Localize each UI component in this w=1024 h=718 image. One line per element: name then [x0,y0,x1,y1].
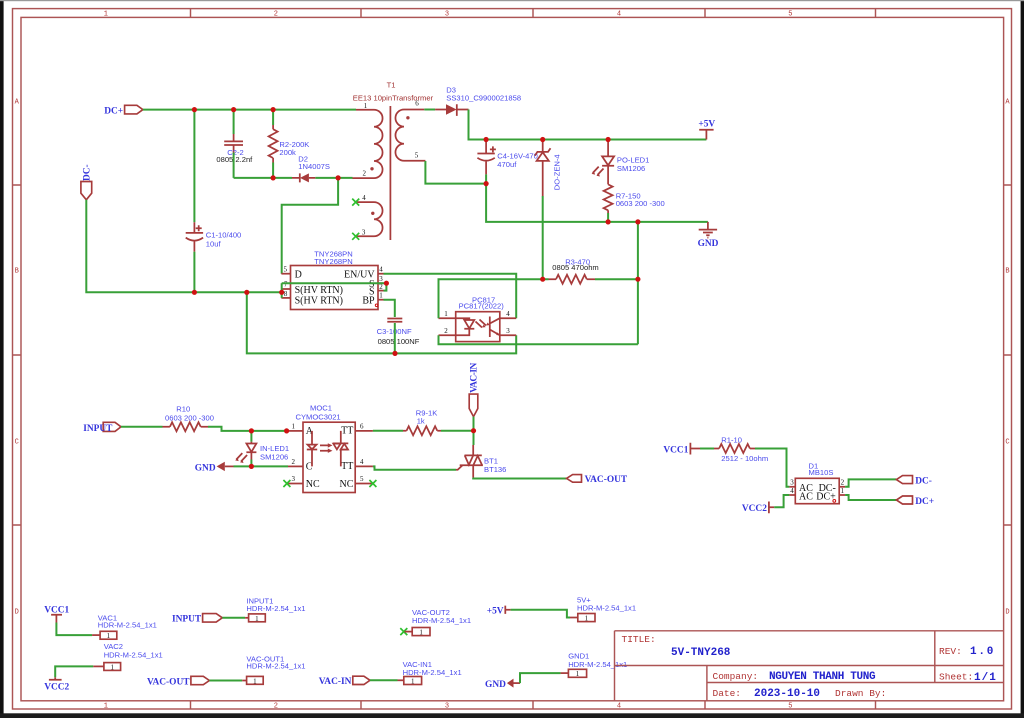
svg-text:AC: AC [799,491,813,502]
svg-text:0603 200 -300: 0603 200 -300 [616,199,665,208]
svg-text:HDR-M-2.54_1x1: HDR-M-2.54_1x1 [104,651,163,660]
svg-text:HDR-M-2.54_1x1: HDR-M-2.54_1x1 [568,660,627,669]
svg-text:D: D [15,609,19,617]
junction rail/C4 [484,137,489,142]
wire VAC-IN to VAC-IN1 [370,679,398,681]
wire BT1 to VAC-OUT [473,477,566,480]
optotriac MOC1 [283,404,376,493]
svg-text:3: 3 [445,11,449,19]
svg-text:4: 4 [617,703,621,711]
resistor R9 [403,409,441,436]
svg-text:DO-ZEN-4: DO-ZEN-4 [553,154,562,190]
MOC1 internal arrows [320,445,329,450]
svg-text:B: B [1005,268,1009,276]
svg-text:5: 5 [415,151,419,159]
wire INPUT to R10 [121,426,163,428]
TNY268 pin 8 [281,297,290,299]
svg-text:VCC1: VCC1 [44,605,69,615]
wire R10 to MOC1 [208,427,288,431]
svg-text:10uf: 10uf [206,240,222,249]
MOC1 pin 4 [355,465,373,467]
port DC+ [104,105,143,116]
capacitor C1 [186,222,242,251]
wire GND to GND1 [520,673,561,683]
svg-text:SM1206: SM1206 [260,453,288,462]
wire BP to C3 [384,300,395,317]
svg-text:R1-10: R1-10 [721,436,742,445]
svg-text:T1: T1 [387,81,396,90]
svg-text:SM1206: SM1206 [617,164,645,173]
wire VCC1 to R1 [700,448,714,450]
wire VCC2 to VAC2 [55,666,93,677]
PC817 pin 2 [439,334,456,336]
wire LED to GND line [250,460,252,467]
svg-text:B: B [15,268,19,276]
svg-text:NC: NC [306,479,320,490]
svg-text:R10: R10 [176,405,190,414]
resistor R3 [549,258,599,284]
junction GND/R7 [606,219,611,224]
wire VCC1 to VAC1 [56,623,92,636]
svg-text:Sheet:: Sheet: [939,672,973,683]
svg-text:1: 1 [444,310,448,318]
svg-text:0603 200 -300: 0603 200 -300 [165,414,214,423]
junction C3/rail [392,351,397,356]
junction DC-/TNY pins [279,290,284,295]
svg-text:2023-10-10: 2023-10-10 [754,688,820,700]
svg-text:2: 2 [291,458,295,466]
TNY268 pin 5 [281,273,290,275]
resistor R2 [269,125,310,163]
wire bottom source rail [247,292,516,353]
svg-text:1: 1 [107,632,111,640]
PC817 pin 3 [500,334,516,336]
port INPUT [83,422,121,434]
svg-text:4: 4 [362,194,366,202]
wire opto pin1 to zener/R3 [439,279,549,318]
junction C4 bottom [484,181,489,186]
PC817 internal arrows [476,320,487,328]
power +5V [698,119,715,139]
junction rail/LED [606,137,611,142]
title block [615,631,1004,701]
junction R3 left / zener [540,277,545,282]
TNY268 pin 7 [281,288,290,290]
svg-text:3: 3 [445,703,449,711]
svg-text:0805 470ohm: 0805 470ohm [552,263,598,272]
wire D3 to +5V rail [469,110,707,140]
bridge rectifier D1 [789,461,845,503]
svg-text:NC: NC [339,479,353,490]
wire T1.5 to C4 bottom [425,161,486,184]
TNY268 pin 4 [378,273,384,275]
wire R2 bottom [272,163,274,178]
svg-text:1: 1 [253,677,257,685]
svg-text:1: 1 [411,677,415,685]
no-connect T1 pin 3 [352,233,359,240]
no-connect MOC1 pin 5 [369,480,376,487]
power VCC2 (bottom) [44,677,69,692]
svg-text:1: 1 [291,422,295,430]
port DC+ (right) [896,496,934,507]
svg-text:5V-TNY268: 5V-TNY268 [671,647,731,659]
wire GND to MOC pin2 [234,465,289,467]
LED PO-LED1 [592,140,650,185]
D1 pin 1 [839,494,845,496]
wire C1 top [193,110,195,223]
svg-text:VAC-IN: VAC-IN [319,677,352,687]
wire +5V to 5V+ header [511,610,570,618]
svg-text:BP: BP [362,295,375,306]
svg-text:VAC2: VAC2 [104,642,123,651]
MOC1 pin 3 [287,483,303,485]
svg-text:VAC-OUT: VAC-OUT [147,677,190,687]
svg-text:DC+: DC+ [104,106,123,116]
svg-text:4: 4 [360,458,364,466]
svg-text:HDR-M-2.54_1x1: HDR-M-2.54_1x1 [412,616,471,625]
svg-text:1: 1 [364,102,368,110]
wire MOC pin6 to R9 [373,430,403,432]
svg-text:1: 1 [104,703,108,711]
svg-text:C1-10/400: C1-10/400 [206,231,241,240]
wire T1.6 to D3 [424,109,435,111]
svg-text:0805 2.2nf: 0805 2.2nf [216,155,253,164]
svg-text:GND: GND [485,680,506,690]
svg-text:2: 2 [362,169,366,177]
svg-text:1: 1 [110,663,114,671]
svg-text:PC817(2022): PC817(2022) [459,302,505,311]
svg-text:0805 100NF: 0805 100NF [378,337,420,346]
junction IN-LED top [249,428,254,433]
wire C2 bottom [233,153,235,178]
junction D2/T1.2 [336,175,341,180]
junction DC-/source drop [244,290,249,295]
TNY268 pin 2 [378,290,384,292]
junction R3 right [635,277,640,282]
svg-text:1N4007S: 1N4007S [298,162,330,171]
port VAC-IN (bottom) [319,676,370,687]
wire TNY sources vertical [281,283,283,298]
svg-text:1: 1 [576,670,580,678]
svg-text:3: 3 [790,479,794,487]
svg-text:SS310_C9900021858: SS310_C9900021858 [446,93,521,102]
LED IN-LED1 [235,442,289,463]
wire LED drop [250,431,252,442]
svg-text:Drawn By:: Drawn By: [835,688,886,699]
svg-text:7: 7 [284,281,288,289]
port VAC-IN [469,363,479,417]
T1 core [389,106,391,240]
svg-text:DC-: DC- [915,476,932,486]
svg-text:TT: TT [341,461,353,472]
wire VCC2 to D1 pin4 [774,495,789,507]
svg-text:2: 2 [274,703,278,711]
svg-text:INPUT: INPUT [172,615,202,625]
power +5V (bottom) [487,606,511,617]
junction DC+/R2 [271,107,276,112]
wire to pin 2 [384,283,387,290]
power VCC1 (right) [663,443,700,456]
wire EN/UV to opto pin4 [384,274,517,319]
svg-text:3: 3 [291,475,295,483]
svg-text:D: D [295,269,302,280]
svg-text:HDR-M-2.54_1x1: HDR-M-2.54_1x1 [577,604,636,613]
wire C2 top [233,110,235,134]
junction VAC-IN [471,428,476,433]
svg-text:5: 5 [360,475,364,483]
wire VAC-OUT to VAC-OUT1 [209,680,242,682]
svg-text:S(HV RTN): S(HV RTN) [295,295,343,306]
svg-text:8: 8 [284,290,288,298]
header VAC-OUT2 with no-connect [400,608,471,637]
svg-text:DC+: DC+ [915,497,934,507]
wire D1 pin2 to DC- [845,479,896,486]
svg-text:1: 1 [379,292,383,300]
D1 pin 2 [839,486,845,488]
svg-text:VCC2: VCC2 [44,682,69,692]
header VAC-OUT1 [242,654,305,685]
svg-text:1: 1 [419,629,423,637]
svg-text:MB10S: MB10S [809,468,834,477]
svg-text:NGUYEN THANH TUNG: NGUYEN THANH TUNG [769,671,876,683]
header GND1 [561,652,628,679]
capacitor C2 [216,134,253,164]
junction R2 bottom [271,175,276,180]
svg-text:CYMOC3021: CYMOC3021 [296,413,341,422]
svg-text:GND: GND [698,239,719,249]
svg-text:TT: TT [341,425,353,436]
header VAC-IN1 [398,660,462,686]
wire GND rail [486,184,708,222]
svg-text:INPUT: INPUT [83,424,113,434]
port VAC-OUT (bottom) [147,676,209,687]
svg-text:D: D [1005,609,1009,617]
svg-text:2: 2 [444,327,448,335]
header VAC1 [92,613,157,640]
wire D1 pin1 to DC+ [845,495,896,500]
capacitor C3 [377,319,420,347]
wire net DC- [86,200,281,292]
svg-text:REV:: REV: [939,646,962,657]
ground GND (bottom, arrow style) [485,679,520,691]
svg-text:1: 1 [841,487,845,495]
svg-text:Date:: Date: [713,688,742,699]
zener DO-ZEN-4 [535,140,562,197]
resistor R7 [604,184,665,213]
capacitor C4 [477,140,537,175]
PC817 internal transistor [490,317,500,338]
svg-text:200k: 200k [279,148,296,157]
svg-text:4: 4 [379,265,383,273]
svg-text:VAC-OUT: VAC-OUT [585,475,628,485]
svg-text:5: 5 [283,265,287,273]
port VAC-OUT [567,475,628,486]
svg-text:6: 6 [415,99,419,107]
MOC1 pin 2 [288,465,303,467]
svg-text:+5V: +5V [698,119,715,129]
resistor R1 [714,436,768,464]
diode D2 [292,155,330,183]
svg-text:HDR-M-2.54_1x1: HDR-M-2.54_1x1 [246,662,305,671]
wire INPUT to INPUT1 [222,617,245,619]
svg-text:4: 4 [617,11,621,19]
PC817 internal LED [456,318,475,335]
port INPUT (bottom) [172,614,222,625]
wire net snubber y178 [234,177,353,179]
no-connect T1 pin 4 [352,199,359,206]
svg-text:4: 4 [506,310,510,318]
junction DC-/C1 [192,290,197,295]
svg-text:6: 6 [360,422,364,430]
wire MOC pin4 to gate [373,466,456,469]
resistor R10 [163,405,214,432]
junction DC+/C1 [192,107,197,112]
IC TNY268PN [281,249,383,309]
wire VAC-IN drop [473,417,475,445]
svg-text:VCC2: VCC2 [742,504,767,514]
svg-text:+5V: +5V [487,607,504,617]
svg-text:2: 2 [841,479,845,487]
wire source crossover [282,282,387,284]
svg-text:1.0: 1.0 [970,646,995,658]
svg-text:Company:: Company: [713,671,759,682]
wire R1 to D1 pin3 [755,449,789,487]
header INPUT1 [245,596,305,622]
wire R7 bottom [607,213,609,222]
TNY268 pin 3 [378,282,384,284]
svg-text:S(HV RTN): S(HV RTN) [295,285,343,296]
junction GND/feedback [635,219,640,224]
svg-text:2512 - 10ohm: 2512 - 10ohm [721,454,768,463]
svg-text:HDR-M-2.54_1x1: HDR-M-2.54_1x1 [98,621,157,630]
wire R9 to junction [441,430,474,432]
wire R2 top [272,110,274,125]
svg-text:TITLE:: TITLE: [622,634,656,645]
svg-text:HDR-M-2.54_1x1: HDR-M-2.54_1x1 [403,668,462,677]
svg-text:1/1: 1/1 [974,672,997,684]
T1 bias winding [357,202,383,236]
wire zener to R3 [542,196,544,279]
wire C1 bottom [193,252,195,293]
svg-text:2: 2 [274,11,278,19]
triac BT1 [456,445,506,478]
junction source crossover [384,281,389,286]
svg-text:1: 1 [585,615,589,623]
svg-text:1k: 1k [417,417,425,426]
header VAC2 [93,642,162,671]
svg-text:MOC1: MOC1 [310,404,332,413]
svg-text:5: 5 [788,11,792,19]
optocoupler PC817 [439,295,517,341]
power VCC2 (right) [742,502,774,515]
svg-text:1: 1 [104,11,108,19]
svg-text:C: C [1005,439,1009,447]
svg-text:BT136: BT136 [484,465,506,474]
T1 primary winding [353,110,383,178]
port DC- [81,164,93,199]
no-connect MOC1 pin 3 [283,480,290,487]
wire GND drop right [637,222,639,344]
svg-text:DC-: DC- [83,164,93,181]
MOC1 pin 5 [355,483,373,485]
ground GND [698,222,719,249]
svg-text:470uf: 470uf [497,160,517,169]
junction DC+/C2 [231,107,236,112]
wire C3 bottom [394,323,396,353]
svg-text:GND: GND [195,464,216,474]
junction MOC pin1 [284,428,289,433]
MOC1 pin 6 [355,430,373,432]
MOC1 internal triac [333,431,348,467]
port DC- (right) [896,476,931,487]
wire opto pin2 down [439,335,638,344]
PC817 pin 1 [439,317,456,319]
svg-text:5: 5 [788,703,792,711]
junction LED bottom [249,464,254,469]
junction rail/zener [540,137,545,142]
svg-text:1: 1 [255,615,259,623]
svg-text:HDR-M-2.54_1x1: HDR-M-2.54_1x1 [246,604,305,613]
wire drain route [282,178,338,274]
power VCC1 (bottom) [44,605,69,622]
TNY268 pin 1 [378,299,384,301]
MOC1 pin 1 [288,430,303,432]
svg-text:4: 4 [790,487,794,495]
PC817 pin 4 [500,317,516,319]
svg-text:VCC1: VCC1 [663,445,688,455]
svg-text:VAC-IN: VAC-IN [469,363,479,393]
ground GND (arrow style) [195,462,234,474]
MOC1 internal LED [307,431,317,467]
transformer T1 [352,81,433,240]
D1 pin 3 [789,486,795,488]
wire net DC+ rail [143,109,356,111]
svg-text:3: 3 [506,327,510,335]
svg-text:C: C [15,439,19,447]
T1 secondary winding [395,110,425,161]
header 5V+ [570,595,636,622]
diode D3 [435,86,521,116]
D1 pin 4 [789,494,795,496]
svg-text:3: 3 [362,229,366,237]
wire R3 right [595,278,638,280]
